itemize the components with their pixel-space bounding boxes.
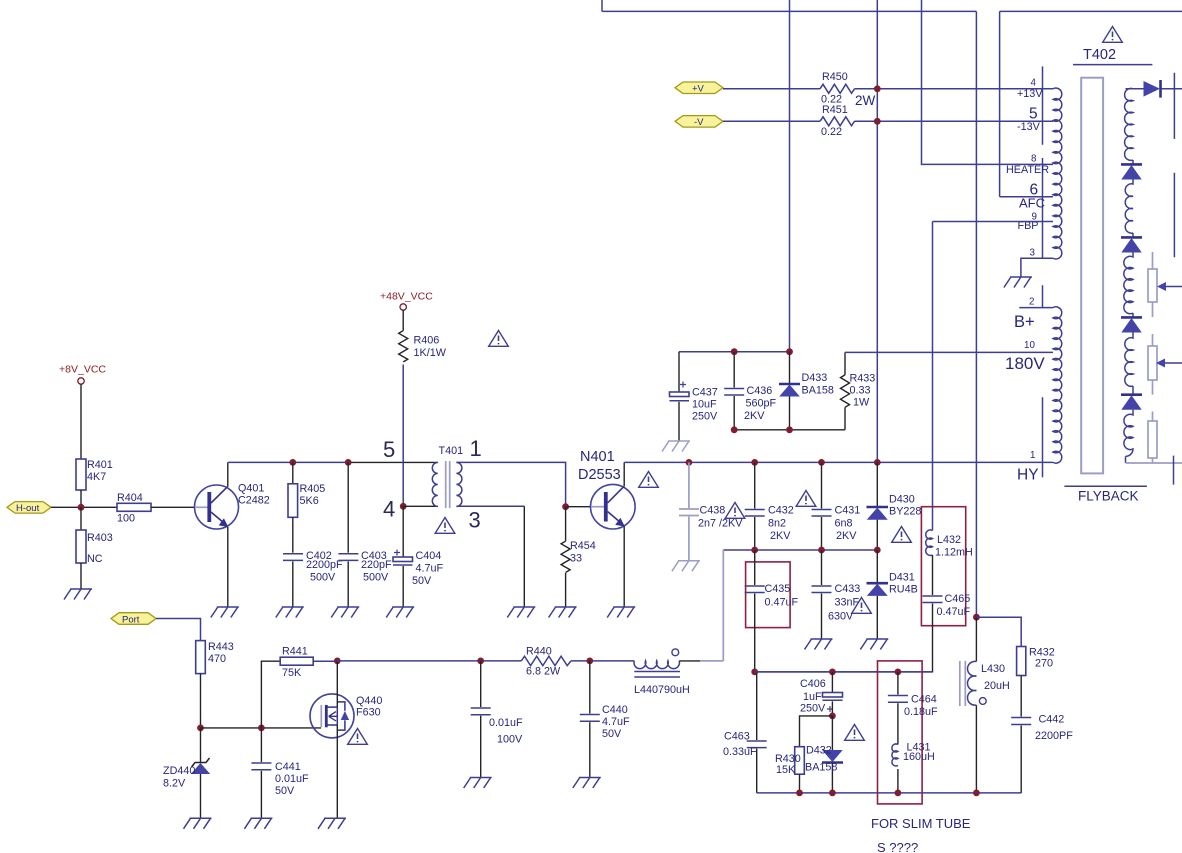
svg-text:F630: F630 [356,707,381,719]
wire AFC run [1000,196,1053,198]
T402 secondary winding S5 [1124,410,1133,463]
transformer T402 label [1103,27,1123,43]
warning triangle D430 [892,527,912,543]
svg-text:500V: 500V [363,572,389,584]
resistor R451 [820,117,855,126]
node junction dot 2nd bus D431 [874,547,881,554]
svg-text:1uF: 1uF [803,691,822,703]
wire C465 bottom across to L431 node [755,671,933,673]
zener ZD440 [200,728,202,762]
svg-text:250V: 250V [692,411,718,423]
node junction dot drain [334,658,341,665]
capacitor C431 [821,462,823,508]
svg-text:0.47uF: 0.47uF [765,597,799,609]
svg-text:C437: C437 [692,387,718,399]
svg-text:4.7uF: 4.7uF [416,563,444,575]
svg-text:0.22: 0.22 [821,126,842,138]
svg-text:5: 5 [1029,106,1038,123]
svg-text:3: 3 [469,508,481,533]
svg-text:R401: R401 [87,459,113,471]
node junction dot bottom D433 [786,426,793,433]
svg-text:2200PF: 2200PF [1035,730,1073,742]
wire +48V to R406 [402,310,404,331]
svg-text:C441: C441 [275,761,301,773]
wire pin4 [403,505,438,507]
wire Q440 source to ground [336,725,338,818]
resistor R404 [117,503,151,511]
svg-text:5: 5 [383,437,395,462]
T402 secondary winding S2 [1125,180,1133,238]
svg-text:R443: R443 [208,641,234,653]
capacitor C432 [754,462,756,508]
resistor R405 [292,462,294,483]
svg-text:560pF: 560pF [746,398,777,410]
resistor secondary Rc [1152,412,1154,422]
wire top-left vertical stub [601,0,603,11]
warning triangle mid-top [489,331,509,347]
node junction dot D432 rail [829,790,836,797]
node junction dot L430 rail [973,790,980,797]
svg-text:0.01uF: 0.01uF [275,773,309,785]
node junction dot bus C432 [751,459,758,466]
resistor R450 [820,84,855,93]
wire base node to N401 [566,506,596,508]
svg-text:2KV: 2KV [836,530,857,542]
ground pin3 [507,607,535,618]
warning triangle C432 [796,491,816,507]
svg-text:HEATER: HEATER [1006,164,1049,176]
wire D433 group bottom [734,429,845,431]
svg-text:6n8: 6n8 [835,518,853,530]
T402 secondary bottom wire [1126,462,1182,464]
ground cap 0.01 [464,778,492,789]
wire R432 branch [976,617,1021,646]
svg-text:R405: R405 [300,483,326,495]
svg-text:C435: C435 [765,583,791,595]
svg-text:R433: R433 [850,373,876,385]
diode secondary d5 [1121,393,1142,396]
wire vertical heater column then heater run [922,0,1054,164]
svg-text:AFC: AFC [1019,196,1045,211]
T402 primary pin rail [1042,66,1044,477]
svg-text:C431: C431 [835,505,861,517]
box L432 C465 [921,507,965,626]
svg-text:250V: 250V [800,703,826,715]
ground C404 [386,607,414,618]
svg-text:8.2V: 8.2V [163,778,186,790]
svg-text:+13V: +13V [1017,88,1043,100]
svg-text:10uF: 10uF [692,399,717,411]
svg-text:20uH: 20uH [984,680,1010,692]
wire Port to R443 [156,619,201,641]
box C464 L431 [878,661,923,804]
diode D432 [831,716,833,751]
svg-text:4: 4 [383,497,395,522]
svg-text:BA158: BA158 [805,762,837,774]
svg-text:Q401: Q401 [238,483,264,495]
svg-text:B+: B+ [1014,313,1035,331]
svg-text:0.18uF: 0.18uF [904,706,938,718]
svg-text:50V: 50V [602,728,622,740]
ground ZD440 [184,818,212,829]
svg-text:R454: R454 [570,540,596,552]
svg-text:HY: HY [1017,467,1039,484]
svg-text:470: 470 [208,653,226,665]
capacitor C435 [754,550,756,585]
svg-text:C406: C406 [800,678,826,690]
svg-text:N401: N401 [580,449,615,465]
warning triangle D432 [845,725,865,741]
resistor R403 [80,507,82,530]
svg-text:R450: R450 [822,71,848,83]
ground D431 [860,639,888,650]
svg-text:C438: C438 [700,505,726,517]
capacitor C438 [688,462,690,508]
wire R443 to gate node [200,674,202,728]
FBP wire run [933,221,1054,223]
box C435 [746,562,791,628]
warning triangle C433 [852,598,872,614]
node junction dot C406 bottom [829,713,836,720]
svg-text:C440: C440 [602,704,628,716]
wire drain row to R440 [337,660,521,662]
svg-text:10: 10 [1024,340,1035,351]
capacitor C433 [821,550,823,585]
ground C437 [662,441,690,452]
svg-text:33: 33 [570,553,582,565]
svg-text:R403: R403 [87,532,113,544]
svg-text:-V: -V [694,117,704,128]
T402 secondary winding S1 [1125,88,1133,164]
node junction dot +V x877 [874,85,881,92]
resistor R401 [76,459,86,490]
wire 180V run [845,351,1053,353]
capacitor C464 [897,672,899,695]
node Port flag [111,613,156,625]
node junction dot 2nd bus C433 [818,547,825,554]
svg-text:50V: 50V [412,575,432,587]
resistor R406 [399,331,408,362]
svg-text:D433: D433 [802,372,828,384]
wire Q401 collector riser [227,462,229,486]
ground C402 [276,607,304,618]
svg-text:Port: Port [122,614,140,625]
capacitor C406 electrolytic [831,672,833,693]
svg-text:5K6: 5K6 [300,495,319,507]
resistor R443 [196,641,206,674]
wire R432 to C442 [1020,676,1022,717]
wire right edge segments [1173,73,1176,485]
wire top horizontal rail [602,10,976,12]
wire D433 group top [679,351,790,353]
wire R441 left branch [261,661,280,728]
svg-text:3: 3 [1030,248,1036,259]
wire R430 to rail [799,774,801,793]
wire C437 to ground [678,402,680,441]
node junction dot bus D430 [874,459,881,466]
svg-text:D431: D431 [889,572,915,584]
transistor Q401 [195,485,239,529]
wire R454 to ground [565,573,567,607]
svg-text:2: 2 [1029,297,1034,308]
svg-text:L440790uH: L440790uH [634,684,690,696]
node junction dot D433 top [786,348,793,355]
capacitor C465 [932,555,934,595]
svg-text:R406: R406 [414,335,440,347]
wire C402 to ground [292,561,294,607]
wire -V to flyback [855,120,1054,122]
wire riser to L440 row [722,550,724,661]
diode D431 [876,550,878,583]
svg-text:2KV: 2KV [744,410,765,422]
svg-text:C404: C404 [416,550,442,562]
svg-text:D2553: D2553 [578,467,621,483]
ground Q401 emitter [211,607,239,618]
svg-text:R404: R404 [117,492,143,504]
svg-text:50V: 50V [275,785,295,797]
svg-text:+48V_VCC: +48V_VCC [380,291,433,303]
wire gate row [201,727,322,729]
resistor R441 [280,657,313,665]
ground N401 emitter [607,607,635,618]
svg-text:C442: C442 [1039,714,1065,726]
svg-text:1: 1 [1030,450,1035,461]
svg-text:Q440: Q440 [356,695,382,707]
wire R401 to H-out node [80,490,82,507]
wire main bus right (HY) [624,461,1053,463]
wire N401 emitter to ground [623,527,625,608]
diode D430 [876,462,878,506]
svg-text:L430: L430 [981,663,1005,675]
ground R403 [64,589,92,600]
node junction dot C403 bus [345,459,352,466]
node junction dot gate row left [197,725,204,732]
capacitor C441 [260,728,262,762]
diode D433 [789,352,791,384]
wire bottom rail [757,792,1022,794]
capacitor 0.01uF 100V [480,661,482,707]
svg-text:0.47uF: 0.47uF [937,606,971,618]
svg-text:BA158: BA158 [802,385,834,397]
svg-text:0.01uF: 0.01uF [489,717,523,729]
ground C438 [672,561,700,572]
node junction dot bottom C436 [731,426,738,433]
resistor secondary Ra [1152,252,1154,269]
wire L431 to rail [897,769,899,793]
svg-text:100: 100 [117,513,135,525]
svg-text:2200pF: 2200pF [306,559,343,571]
svg-text:R451: R451 [822,104,848,116]
diode secondary d4 [1121,316,1142,319]
capacitor C440 [589,661,591,714]
svg-text:R441: R441 [282,646,308,658]
wire R441 to drain node [313,660,337,662]
FLYBACK label [1064,485,1147,487]
node junction dot C436 top [731,348,738,355]
warning triangle N401 [639,472,659,488]
wire R403 to ground [80,563,82,590]
ground R454 [549,607,577,618]
capacitor C437 electrolytic [678,352,680,392]
arrow tap a [1157,282,1166,291]
node junction dot bus C438 [686,459,693,466]
svg-text:RU4B: RU4B [889,584,918,596]
svg-text:0.33: 0.33 [850,385,871,397]
ground C441 [244,818,272,829]
svg-text:D432: D432 [806,745,832,757]
wire R404 to Q401 base [151,506,196,508]
wire top-right corner rail [1000,11,1182,196]
svg-text:D430: D430 [889,494,915,506]
svg-text:T401: T401 [439,445,464,457]
capacitor C442 [1011,718,1031,725]
svg-text:FLYBACK: FLYBACK [1078,489,1139,504]
node junction dot 2nd bus C435 [751,547,758,554]
svg-text:S ????: S ???? [877,840,918,853]
wire T401 pin3 to ground [456,505,524,507]
wire main bus pin5 [228,461,348,463]
svg-text:2n7 /2KV: 2n7 /2KV [698,518,743,530]
resistor secondary Rb [1152,334,1154,346]
node junction dot H-out [78,504,85,511]
ground C440 [573,778,601,789]
svg-text:+V: +V [692,84,705,95]
T402 primary winding lower [1053,307,1062,463]
node junction dot pin4 [400,503,407,510]
transistor N401 [591,484,636,529]
ground C433 [805,639,833,650]
capacitor C463 [756,672,758,740]
svg-text:C465: C465 [945,593,971,605]
svg-text:6.8 2W: 6.8 2W [526,666,561,678]
wire +V to flyback [855,88,1054,90]
warning triangle under T401 [435,518,455,534]
capacitor C403 [347,462,349,552]
svg-text:C463: C463 [724,731,750,743]
wire Q401 emitter to ground [227,527,229,607]
svg-text:1W: 1W [853,397,870,409]
svg-text:0.33uF: 0.33uF [723,746,757,758]
T402 secondary winding S3 [1124,253,1133,318]
diode secondary d2 [1121,163,1142,166]
svg-text:C433: C433 [835,583,861,595]
T402 core [1081,78,1103,474]
node junction dot N401 base [562,503,569,510]
svg-text:270: 270 [1035,658,1053,670]
svg-text:R440: R440 [526,646,552,658]
wire L440 to riser [679,660,700,662]
resistor R433 [844,352,846,375]
svg-text:C432: C432 [768,505,794,517]
wire C404 to ground [402,566,404,607]
wire FBP column down [932,222,934,531]
svg-text:L432: L432 [937,534,961,546]
capacitor C404 electrolytic [402,506,404,557]
T402 secondary top wire with diode [1126,88,1144,90]
svg-text:C2482: C2482 [238,495,270,507]
node H-out flag [7,502,51,513]
resistor R432 [1017,647,1026,676]
T402 primary winding upper [1053,88,1062,259]
node -V flag [675,116,723,128]
capacitor C436 [733,352,735,388]
svg-text:8n2: 8n2 [768,518,786,530]
T402 secondary winding S4 [1125,333,1133,395]
capacitor C402 [283,554,303,561]
svg-text:75K: 75K [282,667,302,679]
svg-text:4: 4 [1031,78,1037,89]
svg-text:180V: 180V [1005,354,1045,373]
wire to R430 [800,716,833,747]
node +V flag [675,82,723,94]
inductor L440 [634,661,679,669]
ground Q440 [318,818,346,829]
node junction dot R430 rail [796,790,803,797]
svg-text:500V: 500V [310,572,336,584]
wire R405 to C402 [292,517,294,552]
svg-text:1K/1W: 1K/1W [414,347,447,359]
wire +V lead [723,88,820,90]
node junction dot C441 [258,725,265,732]
ground C403 [331,607,359,618]
svg-text:H-out: H-out [16,503,40,514]
resistor R440 [521,656,571,665]
svg-text:-13V: -13V [1017,121,1041,133]
node junction dot L431 top [895,669,902,676]
arrow tap b [1156,359,1165,368]
svg-text:NC: NC [87,553,103,565]
node junction dot R405 bus [289,459,296,466]
wire +8V down to R401 [80,384,82,459]
svg-text:4.7uF: 4.7uF [602,716,630,728]
svg-text:C436: C436 [747,385,773,397]
inductor L430 with core [960,661,966,706]
wire R440 to C440 node [571,660,634,662]
svg-text:FOR SLIM TUBE: FOR SLIM TUBE [871,816,971,831]
svg-text:BY228: BY228 [889,506,921,518]
resistor R430 [795,747,805,775]
svg-text:C464: C464 [911,694,937,706]
inductor L432 [926,530,933,555]
node junction dot C440 [586,658,593,665]
ground T402 pin3 [1004,277,1032,288]
svg-text:15K: 15K [776,764,796,776]
wire R406 down to pin4 node [402,365,404,507]
svg-text:220pF: 220pF [361,559,392,571]
node junction dot C406 top [829,669,836,676]
wire C406 node row [755,671,933,673]
wire vertical +V/-V column x877 [876,0,878,462]
svg-text:100V: 100V [497,734,523,746]
node junction dot L430 top [973,614,980,621]
resistor R454 [565,507,567,542]
svg-text:ZD440: ZD440 [163,765,195,777]
wire -V lead [723,120,820,122]
diode secondary d3 [1121,236,1142,239]
node junction dot C435 bottom [751,669,758,676]
svg-text:+8V_VCC: +8V_VCC [59,364,106,376]
wire C403 to ground [347,561,349,607]
node junction dot -V x877 [874,118,881,125]
warning triangle Q440 [348,729,368,745]
svg-text:T402: T402 [1083,47,1116,63]
transistor Q440 mosfet [310,694,354,738]
wire L430 to rail [975,705,977,793]
svg-text:2W: 2W [855,93,876,108]
wire T401 pin1 to base drop [456,462,565,506]
svg-text:160uH: 160uH [903,751,935,763]
svg-text:1: 1 [470,436,482,461]
